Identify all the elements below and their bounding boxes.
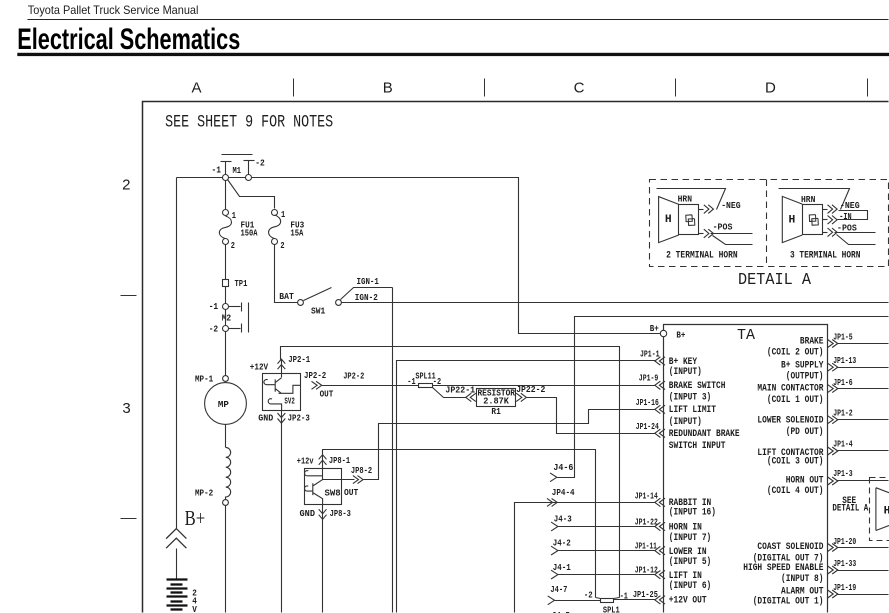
svg-text:GND: GND	[300, 509, 316, 519]
wire 2T POS stub	[699, 233, 704, 235]
terminal circle B+	[660, 330, 666, 336]
wire MP to coil	[225, 425, 227, 448]
svg-text:JP22-2: JP22-2	[516, 385, 545, 395]
detail A dashed box	[650, 180, 889, 267]
svg-text:JP1-9: JP1-9	[639, 373, 659, 383]
svg-text:1: 1	[281, 210, 286, 220]
svg-text:JP1-19: JP1-19	[833, 583, 856, 593]
svg-text:V: V	[192, 605, 197, 613]
svg-text:B+ SUPPLY: B+ SUPPLY	[781, 359, 824, 370]
svg-text:H: H	[884, 506, 889, 518]
wire IGN-2	[342, 302, 889, 304]
horn 3T coil mark	[809, 215, 818, 226]
svg-text:HRN: HRN	[678, 195, 692, 205]
connector 3T NEG	[828, 205, 838, 214]
svg-text:-NEG: -NEG	[721, 201, 741, 211]
connector JP8-2 OUT	[353, 476, 363, 484]
fuse FU3 terminal 1	[272, 210, 278, 216]
svg-text:SW1: SW1	[311, 306, 326, 316]
svg-text:M2: M2	[222, 314, 232, 324]
wire 2T POS	[711, 233, 753, 235]
wire M1-1 to M1-2	[229, 177, 246, 179]
svg-text:(INPUT): (INPUT)	[669, 366, 702, 377]
fuse FU3 terminal 2	[272, 239, 278, 245]
wire B+ to M1-1	[177, 177, 223, 179]
row tick 3-4	[121, 518, 137, 520]
net +12V rail	[281, 347, 620, 598]
sensor SV2 box	[263, 374, 301, 411]
transistor SV2 element	[264, 378, 301, 394]
svg-text:TA: TA	[737, 327, 755, 344]
svg-text:+12V: +12V	[250, 363, 269, 373]
svg-text:J4-3: J4-3	[554, 515, 572, 525]
svg-text:(INPUT 3): (INPUT 3)	[669, 391, 711, 402]
detail A divider	[766, 180, 768, 267]
wire 2T NEG top	[657, 189, 726, 210]
header thin rule	[28, 19, 889, 21]
svg-text:SV2: SV2	[284, 397, 294, 407]
svg-text:(INPUT): (INPUT)	[669, 416, 702, 427]
svg-text:B+: B+	[185, 506, 206, 530]
svg-text:(COIL 3 OUT): (COIL 3 OUT)	[767, 455, 824, 466]
wire IGN-1	[341, 288, 393, 300]
splice SPL1 box	[601, 599, 614, 603]
svg-text:BRAKE: BRAKE	[800, 336, 824, 347]
svg-text:J4-7: J4-7	[550, 585, 567, 595]
svg-text:MP-1: MP-1	[195, 374, 214, 384]
svg-text:(INPUT 5): (INPUT 5)	[669, 556, 711, 567]
svg-text:SW8: SW8	[325, 489, 341, 499]
svg-text:B+: B+	[650, 324, 659, 334]
svg-text:(COIL 4 OUT): (COIL 4 OUT)	[767, 485, 824, 496]
wire JP4-4 to JP1-14	[515, 503, 656, 613]
svg-text:R1: R1	[491, 407, 501, 417]
connector J4-2	[551, 546, 558, 555]
svg-text:TP1: TP1	[235, 279, 248, 289]
wire FU3 to BAT	[275, 245, 298, 303]
svg-text:(PD OUT): (PD OUT)	[786, 426, 824, 437]
svg-text:REDUNDANT BRAKE: REDUNDANT BRAKE	[669, 428, 740, 439]
sensor SW8 box	[305, 469, 342, 505]
fuse FU1 terminal 2	[223, 239, 229, 245]
svg-text:MP-2: MP-2	[195, 489, 213, 499]
svg-text:LIFT LIMIT: LIFT LIMIT	[669, 404, 716, 415]
svg-text:(INPUT 8): (INPUT 8)	[781, 573, 823, 584]
svg-text:Electrical Schematics: Electrical Schematics	[17, 23, 240, 56]
svg-text:BAT: BAT	[279, 292, 294, 302]
wire SPL11 to JP1-9	[433, 385, 656, 387]
svg-text:(COIL 2 OUT): (COIL 2 OUT)	[767, 347, 824, 358]
svg-text:2: 2	[231, 241, 235, 251]
svg-text:JP2-3: JP2-3	[288, 414, 310, 424]
svg-text:B+: B+	[676, 330, 685, 340]
svg-text:JP1-24: JP1-24	[636, 422, 659, 432]
wire M1-1 to FU1	[225, 181, 227, 211]
wire J4-3 to JP1-22	[558, 526, 656, 528]
svg-text:JP1-5: JP1-5	[833, 333, 853, 343]
svg-text:J4-1: J4-1	[553, 563, 571, 573]
column separator B-C	[484, 79, 486, 97]
svg-text:IGN-1: IGN-1	[357, 277, 380, 287]
connector 2T POS	[704, 229, 714, 238]
svg-text:(COIL 1 OUT): (COIL 1 OUT)	[767, 394, 824, 405]
net +12V to JP8-1	[323, 450, 596, 598]
svg-text:2 TERMINAL HORN: 2 TERMINAL HORN	[666, 250, 738, 261]
wire M2 internal	[225, 310, 227, 326]
terminal MP-2	[223, 500, 229, 506]
column separator A-B	[293, 79, 295, 97]
svg-text:1: 1	[232, 211, 237, 221]
connector J4-1	[551, 570, 558, 579]
svg-text:JP1-14: JP1-14	[635, 491, 658, 501]
connector 3T POS	[828, 228, 838, 237]
svg-text:2.87K: 2.87K	[483, 396, 509, 406]
svg-text:Toyota Pallet Truck Service Ma: Toyota Pallet Truck Service Manual	[28, 3, 199, 17]
svg-text:JP8-3: JP8-3	[330, 509, 351, 519]
wire JP8-1 into SW8	[322, 455, 324, 480]
connector JP8-1	[319, 455, 327, 465]
svg-text:JP1-3: JP1-3	[833, 469, 853, 479]
svg-text:A: A	[191, 79, 201, 96]
wire JP22-2 to JP1-24	[527, 398, 656, 434]
svg-text:-POS: -POS	[713, 222, 733, 232]
off-page arrow B+	[166, 529, 186, 549]
svg-text:JP2-2: JP2-2	[304, 371, 326, 381]
contact circle BAT	[298, 300, 304, 306]
row tick 2-3	[121, 295, 137, 297]
svg-text:SWITCH INPUT: SWITCH INPUT	[669, 440, 726, 451]
splice SPL11 box	[419, 384, 433, 388]
svg-text:(INPUT 7): (INPUT 7)	[669, 532, 711, 543]
wire 3T NEG stub	[823, 209, 828, 211]
svg-text:J4-6: J4-6	[553, 463, 573, 473]
svg-text:D: D	[765, 79, 776, 96]
wire 3T IN stub	[823, 219, 828, 221]
wire battery riser	[176, 178, 178, 529]
svg-text:JP1-1: JP1-1	[640, 349, 660, 359]
wire coil to MP-2	[225, 497, 227, 500]
contactor M1 tip -2	[244, 160, 255, 162]
svg-text:C: C	[574, 79, 585, 96]
svg-text:BRAKE SWITCH: BRAKE SWITCH	[669, 380, 726, 391]
wire J4-7 to SPL1	[555, 600, 601, 602]
svg-text:JP2-1: JP2-1	[288, 355, 310, 365]
svg-text:3 TERMINAL HORN: 3 TERMINAL HORN	[790, 249, 860, 260]
wire 3T NEG top	[779, 189, 850, 210]
horn 3T body	[803, 205, 823, 235]
wire 3T POS	[835, 232, 876, 234]
svg-text:JP4-4: JP4-4	[552, 488, 575, 498]
svg-text:JP1-6: JP1-6	[833, 378, 853, 388]
wire J4-1 to JP1-12	[558, 574, 656, 576]
svg-text:HRN: HRN	[801, 195, 815, 205]
wire SW8 GND down	[322, 505, 324, 613]
wire FU1 to TP1	[225, 245, 227, 280]
contactor M1 tip -1	[221, 161, 232, 163]
svg-text:LOWER SOLENOID: LOWER SOLENOID	[757, 415, 823, 426]
column separator D-E	[867, 79, 869, 97]
wire M1-1 to FU3	[228, 180, 275, 209]
fuse FU1 terminal 1	[223, 210, 229, 216]
wire SPL1 to JP1-25	[614, 599, 656, 601]
wire SPL11 to JP22-1	[433, 388, 466, 398]
wire M1-2 to B+ node	[252, 178, 661, 334]
connector J4-7	[548, 596, 555, 605]
connector JP4-4	[547, 498, 557, 506]
connector J4-3	[551, 522, 558, 531]
svg-text:2: 2	[280, 241, 284, 251]
contactor M2 bar	[248, 303, 250, 333]
motor MP	[205, 383, 247, 425]
svg-text:OUT: OUT	[320, 389, 334, 399]
svg-text:JP1-2: JP1-2	[833, 408, 853, 418]
svg-text:OUT: OUT	[344, 488, 359, 498]
svg-text:(OUTPUT): (OUTPUT)	[786, 370, 824, 381]
svg-text:DETAIL A: DETAIL A	[832, 503, 868, 514]
svg-text:-NEG: -NEG	[840, 201, 860, 211]
connector J4-6	[550, 473, 557, 482]
svg-text:-1: -1	[209, 302, 219, 312]
svg-text:-IN: -IN	[839, 212, 851, 222]
svg-text:+12v: +12v	[297, 457, 314, 467]
wire SV2 GND down	[281, 411, 283, 613]
svg-text:150A: 150A	[241, 229, 258, 239]
test point TP1	[223, 280, 229, 287]
svg-text:15A: 15A	[290, 229, 303, 239]
svg-text:DETAIL A: DETAIL A	[738, 271, 812, 290]
svg-text:COAST SOLENOID: COAST SOLENOID	[757, 541, 823, 552]
svg-text:JP1-20: JP1-20	[833, 537, 856, 547]
svg-text:JP1-13: JP1-13	[833, 356, 856, 366]
svg-text:JP1-33: JP1-33	[833, 559, 856, 569]
svg-text:2: 2	[122, 177, 130, 194]
svg-text:JP1-16: JP1-16	[636, 398, 659, 408]
switch SW1 lever	[304, 288, 332, 301]
battery 24V	[167, 578, 188, 580]
horn 3T trapezoid	[782, 196, 802, 242]
frame border	[143, 102, 889, 613]
svg-text:SEE SHEET 9 FOR NOTES: SEE SHEET 9 FOR NOTES	[165, 113, 333, 133]
svg-text:-2: -2	[255, 158, 264, 168]
splice SPL1 leads	[596, 598, 601, 599]
svg-text:IGN-2: IGN-2	[355, 293, 378, 303]
connector JP2-1	[278, 359, 286, 369]
svg-text:J4-2: J4-2	[553, 539, 571, 549]
horn 2T body	[679, 205, 699, 235]
svg-text:MP: MP	[218, 400, 230, 410]
title thick rule	[17, 53, 889, 56]
svg-text:B: B	[383, 79, 393, 96]
contactor M1 bar	[222, 154, 253, 156]
fuse FU3 element	[269, 215, 281, 239]
wire MP-2 down	[225, 506, 227, 613]
svg-text:JP2-2: JP2-2	[343, 372, 364, 382]
connector JP22-1	[466, 393, 476, 401]
svg-text:3: 3	[122, 400, 130, 417]
svg-text:JP1-4: JP1-4	[833, 440, 853, 450]
wire 3T POS stub	[823, 232, 828, 234]
connector JP2-2 OUT	[312, 381, 322, 389]
connector JP8-3 GND	[319, 509, 327, 519]
wire arrow to battery	[176, 549, 178, 579]
svg-text:SPL1: SPL1	[603, 605, 620, 613]
wire TP1 to M2	[225, 287, 227, 304]
controller TA box	[664, 325, 828, 613]
contact circle M2-2	[223, 326, 229, 332]
svg-text:JP1-25: JP1-25	[633, 590, 658, 600]
net IGN-1 vertical	[392, 288, 394, 613]
svg-text:(DIGITAL OUT 1): (DIGITAL OUT 1)	[753, 596, 824, 607]
terminal MP-1	[223, 376, 229, 382]
contactor M2 contact -2	[229, 328, 241, 330]
contactor M2 contact -1	[229, 306, 241, 308]
svg-text:JP8-2: JP8-2	[351, 466, 372, 476]
contact circle M1-2	[246, 175, 252, 181]
svg-text:H: H	[789, 215, 796, 227]
wire 2T NEG stub	[699, 209, 704, 211]
svg-text:(INPUT 6): (INPUT 6)	[669, 580, 711, 591]
see detail A box	[870, 478, 889, 541]
column separator C-D	[675, 79, 677, 97]
connector 2T NEG	[704, 205, 714, 214]
svg-text:H: H	[665, 214, 672, 226]
svg-text:M1: M1	[233, 166, 242, 176]
horn 2T coil mark	[686, 215, 695, 226]
inductor MP coil	[226, 447, 231, 497]
contact circle M1-1	[223, 175, 229, 181]
net J4-6 wire	[557, 317, 889, 478]
wire B+ KEY	[397, 361, 656, 613]
contact circle M2-1	[223, 304, 229, 310]
svg-text:-1: -1	[212, 165, 222, 175]
fuse FU1 element	[219, 216, 231, 239]
svg-text:HIGH SPEED ENABLE: HIGH SPEED ENABLE	[743, 562, 823, 573]
wire J4-2 to JP1-11	[558, 550, 656, 552]
svg-text:+12V OUT: +12V OUT	[669, 594, 707, 605]
transistor SW8 element	[304, 471, 322, 505]
wire M2 to MP-1	[225, 332, 227, 376]
wire JP8-2 to JP1-16	[323, 479, 355, 481]
horn detail trapezoid	[876, 488, 889, 531]
connector JP22-2	[516, 393, 526, 401]
svg-text:(INPUT 16): (INPUT 16)	[669, 507, 716, 518]
svg-text:JP8-1: JP8-1	[329, 456, 351, 466]
sensor SV2 lower element	[268, 399, 281, 411]
wire JP2-1 into SV2	[281, 360, 283, 378]
horn 2T trapezoid	[659, 197, 679, 243]
contact circle SW1	[336, 300, 342, 306]
svg-text:MAIN CONTACTOR: MAIN CONTACTOR	[757, 382, 823, 393]
wire SV2 OUT to SPL11	[322, 385, 419, 387]
connector 3T IN	[828, 216, 838, 225]
wire 3T NEG-IN jumper	[838, 211, 868, 220]
resistor R1 box	[477, 389, 516, 407]
svg-text:-2: -2	[209, 324, 219, 334]
svg-text:-2: -2	[584, 591, 593, 601]
connector JP2-3 GND	[278, 413, 286, 423]
svg-text:GND: GND	[258, 414, 274, 424]
